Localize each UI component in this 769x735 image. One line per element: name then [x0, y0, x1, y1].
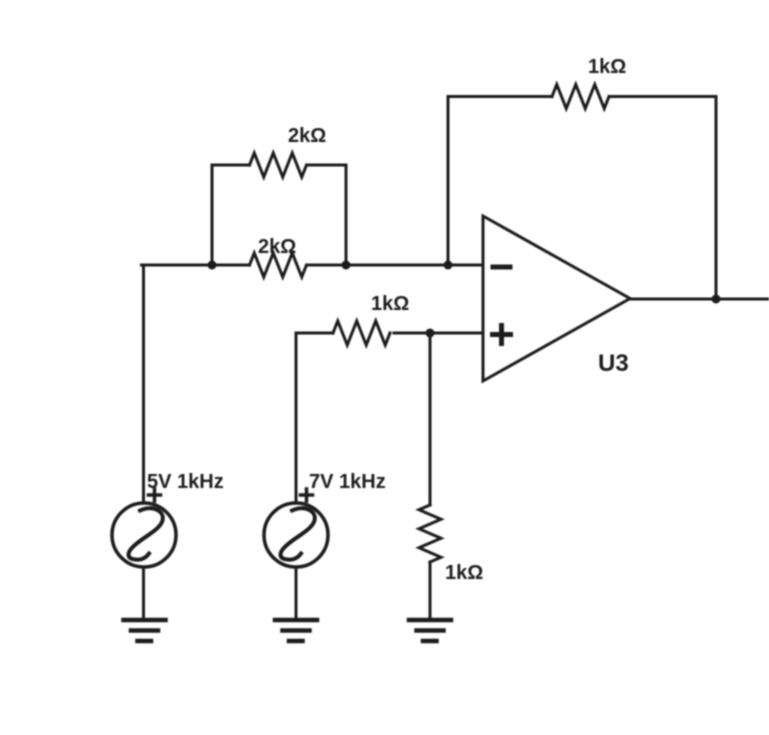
op-amp plus pin symbol: [493, 326, 511, 344]
resistor R2 2kΩ (series, in inverting net): [250, 253, 307, 277]
node: output junction: [712, 295, 721, 304]
svg-text:1kΩ: 1kΩ: [445, 562, 483, 584]
node: junction left of R1/R2: [208, 261, 217, 270]
node: feedback to inverting input: [444, 261, 453, 270]
op-amp minus pin symbol: [493, 265, 510, 270]
source V1 circle (5V 1kHz): [112, 503, 176, 567]
svg-text:2kΩ: 2kΩ: [288, 125, 326, 147]
wire: parallel branch left vertical: [211, 165, 214, 265]
wire: feedback right vertical: [715, 97, 718, 300]
svg-text:1kΩ: 1kΩ: [588, 56, 626, 78]
wire: parallel branch right vertical: [345, 165, 348, 265]
source V2 circle (7V 1kHz): [264, 503, 328, 567]
wire: V2 top vertical (from non-inverting net down to source): [295, 333, 298, 503]
wire: V1 bottom vertical: [142, 567, 145, 619]
resistor R3 1kΩ (non-inverting series): [333, 321, 390, 345]
source V1 sine squiggle: [129, 508, 163, 559]
wire: non-inverting input horizontal: [296, 332, 482, 335]
ground (R4): [409, 620, 451, 641]
resistor R1 2kΩ (parallel branch): [250, 153, 307, 177]
source V1 plus polarity mark: [149, 489, 161, 501]
wire: feedback left vertical: [447, 97, 450, 266]
ground (V1): [124, 620, 166, 641]
op-amp U3: [483, 216, 630, 381]
svg-text:2kΩ: 2kΩ: [258, 236, 296, 258]
node: junction right of R1/R2: [342, 261, 351, 270]
wire: R4 bottom vertical: [429, 562, 432, 619]
wire: parallel branch top horizontal: [212, 164, 346, 167]
wire: inverting input horizontal net: [142, 264, 483, 267]
wire: V2 bottom vertical: [295, 567, 298, 619]
svg-text:7V 1kHz: 7V 1kHz: [309, 471, 386, 493]
resistor R5 1kΩ (feedback): [552, 85, 609, 109]
wire: feedback top horizontal: [448, 95, 716, 98]
wire: op-amp output: [630, 298, 769, 301]
svg-text:1kΩ: 1kΩ: [371, 293, 409, 315]
source V2 sine squiggle: [281, 508, 315, 559]
svg-text:5V 1kHz: 5V 1kHz: [147, 471, 224, 493]
svg-text:U3: U3: [598, 350, 629, 377]
source V2 plus polarity mark: [301, 489, 313, 501]
resistor R4 1kΩ (to ground): [419, 505, 441, 562]
wire: V1 top vertical (from inverting net down to source): [142, 265, 145, 503]
ground (V2): [275, 620, 317, 641]
node: non-inverting junction: [426, 329, 435, 338]
wire: R4 top vertical: [429, 333, 432, 505]
